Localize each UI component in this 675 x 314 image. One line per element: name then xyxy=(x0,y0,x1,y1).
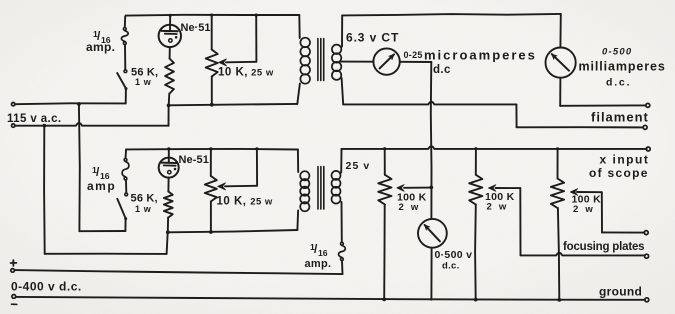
svg-text:2 w: 2 w xyxy=(573,204,595,215)
svg-text:d.c.: d.c. xyxy=(606,77,631,89)
svg-text:2 w: 2 w xyxy=(399,202,421,213)
svg-text:56 K,: 56 K, xyxy=(131,193,158,205)
svg-text:6.3 v CT: 6.3 v CT xyxy=(346,31,399,45)
svg-text:amp.: amp. xyxy=(86,40,115,54)
svg-text:0-500: 0-500 xyxy=(602,47,632,58)
svg-text:filament: filament xyxy=(591,110,649,125)
svg-text:16: 16 xyxy=(318,248,328,258)
svg-text:ground: ground xyxy=(599,285,642,299)
svg-text:0·500 v: 0·500 v xyxy=(435,249,473,261)
svg-text:1 w: 1 w xyxy=(135,77,152,87)
svg-text:10 K, 25 w: 10 K, 25 w xyxy=(217,196,273,208)
svg-text:microamperes: microamperes xyxy=(424,48,537,63)
svg-text:Ne·51: Ne·51 xyxy=(181,22,211,34)
svg-text:amp.: amp. xyxy=(305,258,332,270)
svg-text:10 K, 25 w: 10 K, 25 w xyxy=(218,67,274,79)
svg-text:115 v a.c.: 115 v a.c. xyxy=(7,113,62,125)
svg-text:25 v: 25 v xyxy=(346,160,371,172)
svg-text:Ne-51: Ne-51 xyxy=(179,154,209,166)
svg-text:milliamperes: milliamperes xyxy=(579,60,666,74)
svg-text:0-25: 0-25 xyxy=(404,50,423,60)
svg-text:focusing plates: focusing plates xyxy=(563,241,644,253)
svg-text:x input: x input xyxy=(600,153,650,167)
svg-text:0-400 v d.c.: 0-400 v d.c. xyxy=(11,280,82,294)
svg-text:d.c: d.c xyxy=(433,64,451,76)
svg-text:amp: amp xyxy=(87,179,116,193)
svg-text:1 w: 1 w xyxy=(135,204,152,214)
svg-text:of scope: of scope xyxy=(589,166,649,180)
svg-text:d.c.: d.c. xyxy=(442,261,460,272)
svg-text:2 w: 2 w xyxy=(487,202,509,213)
